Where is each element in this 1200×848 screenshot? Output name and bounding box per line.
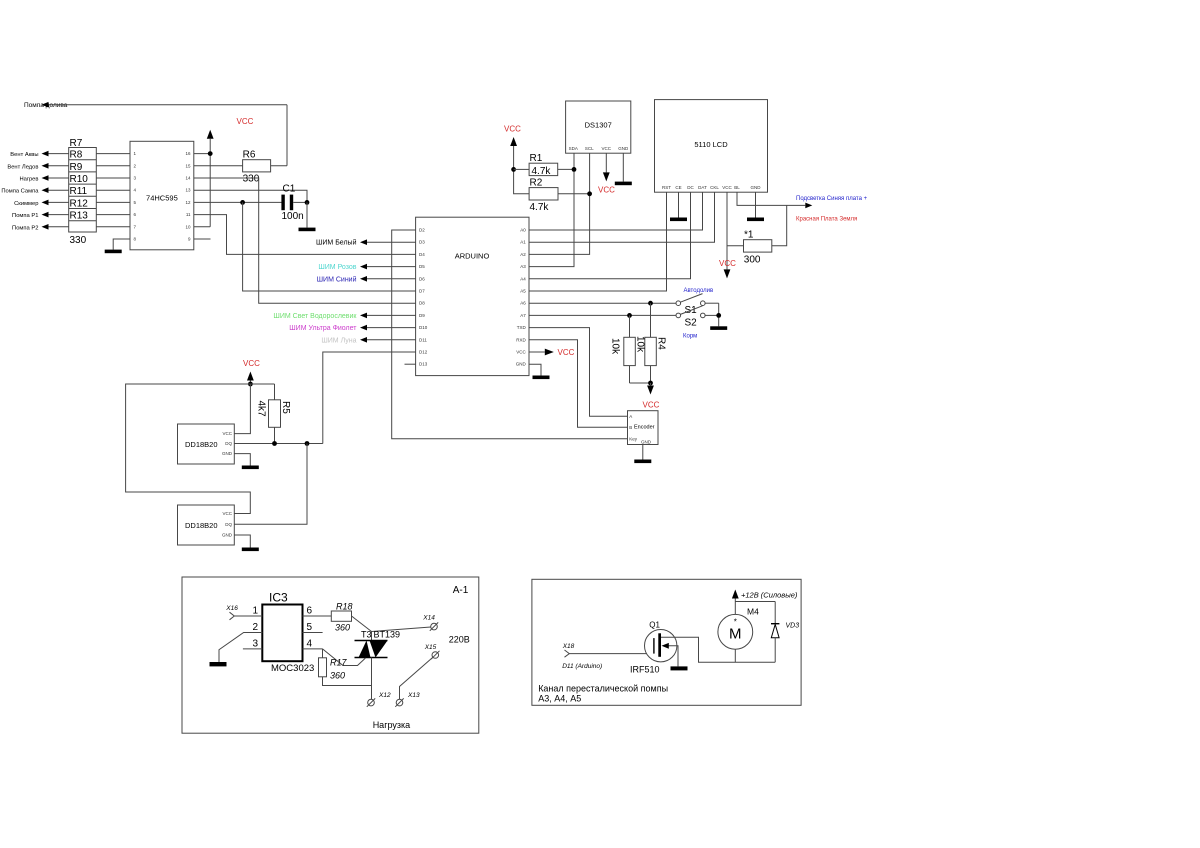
svg-text:DQ: DQ [225, 441, 232, 446]
svg-text:A: A [629, 414, 632, 419]
wire IC3 pin 5 stub [303, 632, 323, 634]
svg-text:A5: A5 [520, 289, 526, 294]
resistor R2 4.7k [529, 178, 590, 214]
svg-text:Вент Ледов: Вент Ледов [7, 164, 38, 170]
svg-text:R13: R13 [70, 211, 89, 222]
resistor R5 4k7 [256, 384, 292, 444]
VCC arrow below pullups [630, 381, 660, 410]
+12V supply arrow [732, 590, 798, 602]
svg-text:Подсветка Синяя плата +: Подсветка Синяя плата + [796, 196, 868, 202]
wire Arduino A7 to S2 [529, 313, 676, 318]
svg-text:R7: R7 [70, 138, 83, 149]
wire Arduino TXD to encoder A [529, 328, 628, 417]
net arrow ШИМ Свет Водорослевик (Arduino D9) [273, 313, 415, 320]
svg-text:Encoder: Encoder [634, 425, 655, 431]
svg-text:R4: R4 [656, 337, 667, 350]
svg-text:X14: X14 [422, 615, 435, 622]
svg-text:IC3: IC3 [269, 591, 288, 605]
svg-text:15: 15 [185, 163, 191, 168]
resistor R6 330 [194, 150, 287, 185]
output arrow Помпа Р1 [12, 212, 69, 219]
svg-text:360: 360 [335, 623, 350, 633]
wire 595 pin 14 to Arduino D8 [194, 178, 416, 303]
svg-text:D6: D6 [419, 276, 425, 281]
svg-text:13: 13 [185, 188, 191, 193]
IC DS1307 RTC [566, 101, 631, 153]
svg-text:M: M [729, 626, 742, 643]
svg-text:Помпа Р1: Помпа Р1 [12, 213, 38, 219]
ground Arduino GND [529, 364, 550, 379]
output arrow Нагрев [19, 175, 68, 182]
svg-text:X15: X15 [424, 644, 437, 651]
svg-text:A0: A0 [520, 228, 526, 233]
svg-text:4k7: 4k7 [256, 401, 267, 418]
svg-text:R18: R18 [336, 602, 353, 612]
net arrow ШИМ Луна (Arduino D11) [321, 337, 415, 344]
svg-text:D9: D9 [419, 313, 425, 318]
svg-text:VCC: VCC [504, 125, 521, 134]
svg-text:GND: GND [618, 146, 629, 151]
svg-text:Красная Плата Земля: Красная Плата Земля [796, 217, 857, 223]
wire Arduino D2 to encoder Key [392, 230, 628, 439]
VCC symbol temperature sensors [243, 359, 260, 386]
svg-text:10k: 10k [610, 338, 621, 355]
svg-text:12: 12 [185, 200, 191, 205]
wire Arduino RXD to encoder B [529, 340, 628, 428]
resistor R17 360 [319, 649, 372, 686]
svg-text:DC: DC [687, 185, 694, 190]
svg-text:4.7k: 4.7k [532, 166, 552, 177]
svg-text:A4: A4 [520, 276, 526, 281]
svg-text:4: 4 [307, 639, 313, 650]
svg-text:5: 5 [307, 622, 313, 633]
svg-text:DS1307: DS1307 [585, 121, 612, 130]
svg-text:10: 10 [185, 224, 191, 229]
svg-text:IRF510: IRF510 [630, 665, 660, 675]
svg-text:Q1: Q1 [649, 621, 660, 630]
svg-text:16: 16 [185, 151, 191, 156]
svg-text:A7: A7 [520, 313, 526, 318]
wire LCD RST to Arduino A5 [529, 192, 667, 291]
svg-text:R17: R17 [330, 658, 348, 668]
output arrow Вент Аквы [10, 151, 68, 158]
ground S1 S2 [710, 303, 727, 330]
svg-text:Нагрев: Нагрев [19, 177, 38, 183]
svg-text:CE: CE [675, 185, 681, 190]
svg-text:A-1: A-1 [453, 585, 469, 596]
wire SCL to Arduino A2 [529, 153, 592, 254]
svg-text:360: 360 [330, 671, 345, 681]
VCC symbol near 74HC595 (pins 16,10) [194, 117, 254, 227]
svg-text:TXD: TXD [517, 325, 527, 330]
resistor R1 4.7k [514, 153, 574, 177]
svg-text:C1: C1 [283, 184, 296, 195]
svg-text:D7: D7 [419, 289, 425, 294]
svg-text:A6: A6 [520, 301, 526, 306]
svg-text:R9: R9 [70, 162, 83, 173]
svg-text:M4: M4 [747, 607, 759, 617]
diode VD3 [771, 602, 799, 663]
svg-text:VCC: VCC [558, 348, 575, 357]
svg-text:+12В (Силовые): +12В (Силовые) [741, 591, 798, 600]
connector X12 [367, 692, 391, 707]
svg-text:2: 2 [252, 622, 258, 633]
svg-text:ШИМ Белый: ШИМ Белый [316, 239, 357, 247]
svg-text:А3, А4, А5: А3, А4, А5 [538, 694, 581, 704]
motor M4 [718, 602, 759, 663]
svg-text:R1: R1 [530, 153, 543, 164]
svg-text:X16: X16 [225, 605, 238, 612]
wire 595 pin 13 to C1 [194, 190, 307, 202]
svg-text:Помпа Р2: Помпа Р2 [12, 225, 38, 231]
svg-text:14: 14 [185, 176, 191, 181]
svg-text:ШИМ Луна: ШИМ Луна [321, 337, 356, 344]
svg-text:Скиммер: Скиммер [14, 201, 38, 207]
VCC arrow LCD [719, 192, 736, 278]
wire Arduino A6 to S1 [529, 301, 676, 306]
svg-text:CKL: CKL [710, 185, 719, 190]
frame pump channel [532, 579, 801, 705]
VCC arrow Arduino [529, 348, 575, 357]
svg-text:GND: GND [222, 451, 233, 456]
MCU ARDUINO [416, 217, 529, 375]
svg-text:D10: D10 [419, 325, 428, 330]
svg-text:S2: S2 [685, 318, 698, 329]
opto-triac IC3 MOC3023 [252, 591, 314, 675]
svg-text:4.7k: 4.7k [530, 202, 550, 213]
wire LCD BL backlight with arrow [737, 192, 812, 246]
svg-text:A2: A2 [520, 252, 526, 257]
net Помпа долива (pump refill output) [24, 102, 287, 166]
svg-text:D4: D4 [419, 252, 425, 257]
svg-text:VCC: VCC [598, 186, 615, 195]
svg-text:ШИМ Ультра Фиолет: ШИМ Ультра Фиолет [289, 325, 357, 332]
svg-text:*: * [734, 618, 737, 627]
svg-text:R5: R5 [280, 401, 291, 414]
wire DQ bus with R5 and D12 riser [234, 441, 322, 446]
ground encoder [634, 445, 651, 464]
resistor R4 10k (pullup A6) [635, 303, 667, 383]
ground Q1 source [671, 666, 688, 670]
transistor Q1 IRF510 [630, 621, 775, 675]
svg-text:GND: GND [751, 185, 762, 190]
svg-text:6: 6 [307, 606, 313, 617]
svg-text:GND: GND [516, 362, 527, 367]
svg-text:VCC: VCC [222, 431, 232, 436]
svg-text:R2: R2 [530, 178, 543, 189]
svg-text:MOC3023: MOC3023 [271, 663, 314, 674]
svg-text:D12: D12 [419, 350, 428, 355]
svg-text:ШИМ Свет Водорослевик: ШИМ Свет Водорослевик [273, 313, 357, 320]
output arrow Помпа Р2 [12, 224, 69, 231]
temperature sensor DD18B20 (1) [178, 424, 235, 464]
frame A-1 (220V load channel) [182, 577, 479, 733]
svg-text:ШИМ Розов: ШИМ Розов [318, 264, 356, 271]
wire VCC rail to sensors [126, 384, 275, 514]
resistor 10k (pullup A7) [610, 315, 636, 383]
ground LCD GND [747, 192, 764, 221]
net label Подсветка Синяя плата + [796, 196, 868, 202]
temperature sensor DD18B20 (2) [178, 505, 235, 545]
svg-text:R8: R8 [70, 150, 83, 161]
svg-text:R12: R12 [70, 198, 89, 209]
wire IC3 pin 3 stub [243, 648, 262, 650]
resistor *1 300 [727, 230, 772, 266]
net arrow ШИМ Белый (Arduino D3) [316, 239, 416, 247]
triac T3 BT139 [355, 630, 401, 658]
VCC symbol near R1 R2 [504, 125, 529, 194]
svg-text:R11: R11 [70, 186, 88, 197]
svg-text:DQ: DQ [225, 522, 232, 527]
svg-text:D11 (Arduino): D11 (Arduino) [562, 663, 602, 670]
svg-text:ШИМ Синий: ШИМ Синий [317, 275, 357, 283]
svg-text:D3: D3 [419, 240, 425, 245]
svg-text:100n: 100n [282, 211, 304, 222]
switch S1 Автодолив [676, 288, 719, 316]
svg-text:DD18B20: DD18B20 [185, 521, 218, 530]
svg-text:ARDUINO: ARDUINO [455, 252, 490, 261]
label 220В [449, 635, 470, 645]
wire SDA to Arduino A3 [529, 153, 576, 266]
wire pin 9 stub [194, 238, 211, 240]
wire 595 pin 11 to Arduino D4 [194, 215, 416, 255]
output arrow Вент Ледов [7, 163, 68, 170]
LCD module 5110 LCD [655, 100, 768, 193]
svg-text:Помпа Сампа: Помпа Сампа [1, 189, 39, 195]
ground DD18B20-1 [234, 454, 258, 470]
svg-text:GND: GND [222, 533, 233, 538]
svg-text:330: 330 [243, 174, 260, 185]
wire DD18B20-2 DQ [234, 444, 307, 525]
net arrow ШИМ Синий (Arduino D6) [317, 275, 416, 283]
capacitor C1 100n [281, 184, 309, 223]
svg-text:VCC: VCC [237, 117, 254, 126]
svg-text:Корм: Корм [683, 334, 697, 340]
svg-text:SDA: SDA [569, 146, 578, 151]
svg-text:A3: A3 [520, 264, 526, 269]
net arrow ШИМ Ультра Фиолет (Arduino D10) [289, 325, 415, 332]
wire LCD DC to Arduino A4 [529, 192, 691, 279]
svg-text:VD3: VD3 [786, 623, 800, 630]
svg-text:D13: D13 [419, 362, 428, 367]
ground DS1307 [615, 153, 632, 185]
output arrow Скиммер [14, 200, 69, 207]
svg-text:R6: R6 [243, 150, 256, 161]
svg-text:Key: Key [629, 437, 638, 442]
VCC arrow DS1307 [598, 153, 615, 194]
svg-text:VCC: VCC [516, 350, 526, 355]
svg-text:*1: *1 [744, 230, 754, 241]
svg-text:Вент Аквы: Вент Аквы [10, 152, 38, 158]
svg-text:VCC: VCC [222, 511, 232, 516]
svg-text:Автодолив: Автодолив [684, 288, 714, 294]
svg-text:X12: X12 [378, 692, 391, 699]
svg-text:VCC: VCC [243, 359, 260, 368]
wire IC3 pin 2 to ground [210, 633, 263, 667]
IC 74HC595 shift register [130, 141, 194, 250]
svg-text:D8: D8 [419, 301, 425, 306]
svg-text:Нагрузка: Нагрузка [373, 720, 410, 730]
wire triac MT2 to X12 [371, 658, 373, 700]
svg-text:T3: T3 [361, 630, 372, 640]
wire Arduino D12 to DS18B20 DQ bus [323, 352, 416, 444]
svg-text:Канал пересталической помпы: Канал пересталической помпы [538, 684, 668, 694]
svg-text:5110 LCD: 5110 LCD [694, 140, 728, 149]
wire triac MT1 to X14 [372, 627, 431, 641]
wire X15 to X13 [400, 657, 433, 699]
encoder module [628, 411, 659, 445]
svg-text:A1: A1 [520, 240, 526, 245]
wire 595 pin 12 / C1 left / D7 riser [194, 200, 416, 291]
net label Красная Плата Земля [796, 217, 857, 223]
svg-text:RST: RST [662, 185, 671, 190]
label Канал пересталической помпы [538, 684, 668, 704]
svg-text:B: B [629, 425, 632, 430]
connector X14 [422, 615, 438, 631]
svg-text:DAT: DAT [698, 185, 707, 190]
wire DD18B20-1 VCC [234, 384, 250, 434]
svg-text:R10: R10 [70, 174, 89, 185]
svg-text:X13: X13 [407, 692, 420, 699]
svg-text:300: 300 [744, 255, 761, 266]
svg-text:GND: GND [641, 440, 652, 445]
svg-text:BL: BL [734, 185, 740, 190]
label Нагрузка [373, 720, 410, 730]
ground 74HC595 pin 8 [105, 239, 130, 253]
svg-text:VCC: VCC [722, 185, 732, 190]
wire Arduino D13 stub [405, 363, 416, 365]
svg-text:1: 1 [252, 606, 258, 617]
svg-text:10k: 10k [635, 336, 646, 353]
input X18 D11 [562, 643, 654, 670]
wire LCD DAT to Arduino A0 [529, 192, 703, 230]
svg-text:3: 3 [252, 639, 258, 650]
svg-text:X18: X18 [562, 643, 575, 650]
svg-text:220В: 220В [449, 635, 470, 645]
svg-text:RXD: RXD [516, 337, 526, 342]
svg-text:SCL: SCL [585, 146, 594, 151]
connector X15 [424, 644, 440, 659]
connector X13 [395, 692, 420, 707]
svg-text:D11: D11 [419, 337, 427, 342]
wire IC3 pin 4 / gate network [303, 649, 366, 666]
svg-text:VCC: VCC [602, 146, 612, 151]
svg-text:VCC: VCC [643, 401, 660, 410]
svg-text:D2: D2 [419, 228, 425, 233]
ground LCD CE [670, 192, 687, 221]
svg-text:DD18B20: DD18B20 [185, 440, 218, 449]
wire LCD CKL to Arduino A1 [529, 192, 715, 242]
svg-text:330: 330 [70, 235, 87, 246]
svg-text:D5: D5 [419, 264, 425, 269]
output arrow Помпа Сампа [1, 187, 68, 194]
input X16 [225, 605, 262, 620]
net arrow ШИМ Розов (Arduino D5) [318, 264, 415, 271]
svg-text:VCC: VCC [719, 259, 736, 268]
switch S2 Корм [676, 306, 719, 340]
resistor R18 360 [303, 602, 372, 633]
ground DD18B20-2 [234, 535, 258, 551]
svg-text:74HC595: 74HC595 [146, 194, 178, 203]
svg-text:BT139: BT139 [374, 630, 401, 640]
ground C1 [299, 202, 316, 231]
svg-text:11: 11 [186, 212, 191, 217]
resistor network R7-R13 330 [69, 138, 130, 246]
